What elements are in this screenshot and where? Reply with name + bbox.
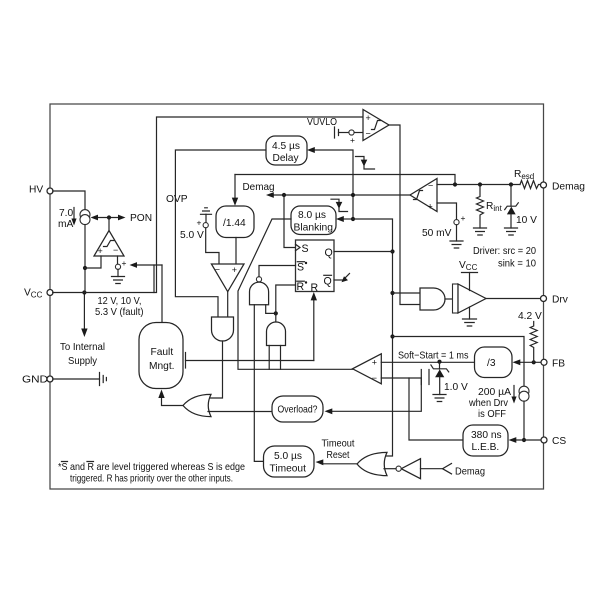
svg-text:−: − (215, 264, 220, 274)
wire FB pin into /3 (519, 361, 542, 363)
wire GND pin to chassis ground (53, 378, 100, 380)
svg-text:+: + (197, 218, 202, 228)
svg-text:mA: mA (58, 219, 73, 230)
current source I2 200uA (519, 386, 529, 396)
vcc tick (462, 272, 478, 274)
pin Drv circle (541, 296, 547, 302)
node Q to 200uA switch line (390, 334, 394, 338)
wire riser fault level from Fault Mngt (161, 265, 163, 323)
block Overload? (272, 396, 323, 422)
IC boundary frame (50, 104, 544, 489)
node Q to blanking (390, 249, 394, 253)
op-amp U7 PWM comparator (points left) (353, 354, 382, 384)
zener D2 1.0V (439, 362, 441, 369)
node PON junction (107, 215, 111, 219)
SECTION: driver (393, 260, 569, 326)
svg-text:+: + (232, 265, 237, 275)
wire AND to buffer (445, 298, 453, 300)
wire PON double arrow (95, 217, 121, 219)
OR gate G6 timeout reset (357, 452, 387, 475)
pin GND circle (47, 376, 53, 382)
svg-text:Demag: Demag (552, 182, 585, 193)
svg-text:GND: GND (22, 375, 48, 386)
svg-text:Drv: Drv (552, 295, 569, 306)
wire buffer to ground (469, 307, 471, 319)
voltage reference V1 circle (115, 264, 120, 269)
svg-text:Q: Q (324, 276, 332, 288)
svg-text:50 mV: 50 mV (422, 228, 452, 239)
svg-text:To Internal: To Internal (60, 342, 105, 353)
wire fault level select arrow (135, 264, 162, 266)
wire Q net vertical (353, 219, 393, 456)
svg-text:+: + (428, 202, 433, 212)
svg-text:OVP: OVP (166, 194, 188, 205)
svg-text:4.5 µs: 4.5 µs (272, 141, 300, 152)
wire VUVLO output to driver AND (389, 125, 420, 305)
block 380ns LEB (463, 425, 508, 456)
ground driver (463, 319, 477, 326)
svg-text:R: R (297, 281, 305, 293)
svg-text:L.E.B.: L.E.B. (472, 442, 500, 453)
svg-text:Fault: Fault (151, 347, 174, 358)
svg-text:Blanking: Blanking (294, 223, 334, 234)
svg-text:R: R (311, 282, 319, 294)
node soft-start (437, 360, 441, 364)
wire AND G1 output to fault OR (208, 341, 222, 398)
wire PWM plus input / FB divider line (381, 361, 474, 363)
svg-text:HV: HV (29, 185, 43, 196)
wire stub to Vcc line (153, 265, 155, 293)
voltage reference 5.0V circle (203, 223, 208, 228)
wire NAND input from timeout (254, 305, 263, 462)
wire y175 demag sense line (235, 175, 455, 185)
AND gate G1 (points down) (212, 317, 234, 341)
svg-text:−: − (428, 181, 433, 191)
SECTION: hv startup (53, 191, 162, 323)
svg-text:Overload?: Overload? (278, 405, 318, 416)
svg-text:Driver: src = 20: Driver: src = 20 (473, 246, 536, 257)
pin HV circle (47, 188, 53, 194)
svg-text:*S and R are level triggered w: *S and R are level triggered whereas S i… (58, 462, 245, 473)
svg-text:−: − (372, 373, 377, 383)
node FB resistor (532, 360, 536, 364)
wire AND G3 output to R-bar input (276, 285, 296, 322)
wire arrow to internal supply (83, 293, 85, 330)
svg-text:Reset: Reset (327, 450, 350, 461)
svg-text:CS: CS (552, 436, 566, 447)
wire VCC pin to VUVLO riser (53, 117, 363, 293)
wire OR bottom input from Overload (208, 411, 272, 413)
hysteresis glyph (414, 191, 423, 200)
wire comparator plus input (85, 256, 101, 268)
wire Q-bar output with switch glyph (334, 279, 343, 281)
svg-text:Soft−Start = 1 ms: Soft−Start = 1 ms (398, 351, 469, 362)
block Fault Mngt (139, 323, 183, 389)
wire demag comparator output (272, 194, 411, 196)
wire NAND input from AND G3 (266, 305, 276, 314)
wire current source down to Vcc (84, 225, 86, 293)
svg-text:12 V, 10 V,: 12 V, 10 V, (98, 296, 142, 307)
wire inverter output to OR (384, 468, 396, 470)
NAND gate G2 (points up, bubble top) (250, 282, 269, 305)
svg-text:+: + (461, 213, 466, 223)
capacitor soft-start plates (420, 370, 422, 385)
wire blanking left to diagonal (238, 219, 353, 369)
pin FB circle (541, 359, 547, 365)
voltage reference circle (349, 130, 354, 135)
pin Demag circle (541, 182, 547, 188)
SECTION: vuvlo (307, 110, 420, 305)
svg-text:Timeout: Timeout (322, 439, 355, 450)
svg-text:5.0 µs: 5.0 µs (274, 451, 302, 462)
wire Q output (334, 251, 393, 253)
block /1.44 (216, 206, 254, 238)
block 8.0us Blanking (291, 206, 336, 235)
ground zener (505, 228, 518, 235)
svg-text:+: + (372, 357, 377, 367)
ground Rint (474, 228, 487, 235)
node R-bar net (274, 311, 278, 315)
svg-text:triggered. R has priority over: triggered. R has priority over the other… (70, 474, 233, 485)
inverter G7 (401, 459, 420, 479)
wire LEB riser to PWM minus (409, 378, 463, 440)
svg-text:FB: FB (552, 359, 565, 370)
op-amp U1 PON comparator (points up) (94, 231, 124, 257)
open arrow demag in (443, 464, 452, 474)
svg-text:+: + (98, 246, 103, 256)
wire 200uA to CS line (523, 401, 525, 440)
SECTION: pwm softstart (325, 311, 567, 456)
wire latch R input arrow from fault line (313, 298, 315, 361)
pin VCC circle (47, 290, 53, 296)
zener D1 10V (510, 185, 512, 207)
arrow current direction (73, 208, 75, 221)
arrow 200uA direction (513, 386, 515, 399)
wire demag minus input line (437, 184, 520, 186)
node demag sense (453, 182, 457, 186)
wire delay output into AND gate (175, 150, 266, 317)
node junction at comparator plus tap (83, 266, 87, 270)
wire Q to driver AND top input (393, 292, 421, 294)
ground (PON reference) (112, 277, 125, 284)
latch U4 SR box (296, 240, 335, 292)
wire driver output to Drv pin (486, 298, 541, 300)
svg-text:1.0 V: 1.0 V (444, 382, 468, 393)
node Q to driver AND (390, 291, 394, 295)
OR gate G4 fault (183, 394, 211, 416)
node demag to S riser (282, 193, 286, 197)
wire CS pin into LEB (515, 439, 542, 441)
wire /1.44 to OVP comparator plus (235, 238, 237, 265)
hysteresis glyph (372, 121, 381, 130)
wire into Blanking box (342, 218, 353, 220)
svg-text:Supply: Supply (68, 356, 98, 367)
svg-text:VUVLO: VUVLO (307, 117, 337, 128)
block /3 (475, 347, 513, 378)
svg-text:+: + (366, 113, 371, 123)
wire demag line down into /1.44 (234, 175, 236, 201)
svg-text:/3: /3 (487, 358, 496, 369)
resistor R 4.2V pull-up (530, 322, 537, 363)
wire bars to reference circle (339, 132, 349, 134)
wire timeout reset arrow (322, 463, 358, 465)
AND gate G3 (points up) (267, 322, 286, 346)
svg-text:−: − (366, 129, 371, 139)
svg-text:5.3 V (fault): 5.3 V (fault) (95, 307, 144, 318)
svg-text:/1.44: /1.44 (223, 218, 246, 229)
block 4.5us Delay (266, 136, 307, 165)
latch S edge mark (296, 244, 301, 250)
resistor Resd (520, 181, 541, 189)
hysteresis glyph (104, 241, 115, 247)
wire NAND output to S-bar input (259, 266, 296, 277)
op-amp U5 demag comparator (points left) (410, 179, 437, 212)
wire ground to 5.0V source (205, 214, 207, 222)
svg-text:10 V: 10 V (516, 215, 537, 226)
SECTION: latch logic (139, 136, 455, 461)
SECTION: ovp (166, 150, 266, 398)
junction Vcc / supply (82, 290, 86, 294)
wire demag to latch S input (284, 195, 296, 248)
svg-text:−: − (113, 245, 118, 255)
chassis ground symbol (100, 373, 107, 386)
block 5.0us Timeout (264, 446, 315, 477)
node Q feedback at blanking (351, 217, 355, 221)
wire demag signal into inverter (421, 468, 443, 470)
svg-text:5.0 V: 5.0 V (180, 230, 204, 241)
wire PWM minus input (331, 378, 421, 411)
svg-text:Demag: Demag (243, 182, 275, 193)
wire 5.0V to OVP comparator minus (206, 228, 219, 264)
svg-text:Delay: Delay (273, 153, 300, 164)
op-amp U2 VUVLO comparator (363, 110, 389, 141)
wire Q to 200uA enable (393, 337, 525, 387)
wire 50mV to ground (456, 225, 458, 241)
svg-text:8.0 µs: 8.0 µs (298, 210, 326, 221)
AND gate G5 driver (420, 288, 445, 310)
svg-text:Mngt.: Mngt. (149, 361, 174, 372)
svg-text:380 ns: 380 ns (471, 430, 502, 441)
node zener top (509, 182, 513, 186)
pin CS circle (541, 437, 547, 443)
wire reference to ground (117, 269, 119, 276)
svg-text:is OFF: is OFF (478, 409, 506, 420)
ground (5.0V reference, pointing up) (201, 208, 212, 215)
svg-text:when Drv: when Drv (468, 398, 509, 409)
current source I1 7.0mA (two circles) (80, 210, 90, 220)
SECTION: bottom (58, 396, 485, 485)
svg-text:200 µA: 200 µA (478, 387, 511, 398)
falling edge glyph near VUVLO (356, 157, 375, 170)
ground 50mV (450, 241, 463, 248)
ground bars (VUVLO reference) (335, 127, 339, 138)
buffer U6 output driver (453, 284, 459, 313)
svg-text:7.0: 7.0 (59, 208, 73, 219)
wire G3 input left (268, 346, 270, 370)
svg-text:+: + (122, 258, 127, 268)
svg-text:Q: Q (325, 247, 333, 259)
node CS 200uA (522, 438, 526, 442)
wire vcc to buffer (469, 273, 471, 291)
node demag delay riser (351, 193, 355, 197)
SECTION: left pins (22, 117, 363, 386)
wire G3 input right (280, 346, 282, 370)
falling edge glyph near blanking (331, 199, 348, 211)
svg-text:Demag: Demag (455, 467, 485, 478)
op-amp U3 OVP comparator (points down) (211, 264, 244, 292)
wire HV pin to current source (53, 191, 85, 210)
wire fault line to latch R (186, 360, 314, 362)
voltage reference 50mV circle (454, 220, 459, 225)
wire into Delay box (313, 150, 353, 219)
svg-text:4.2 V: 4.2 V (518, 311, 542, 322)
fault output tick mark (185, 353, 187, 369)
node Rint top (478, 182, 482, 186)
SECTION: demag right (410, 169, 585, 270)
resistor Rint (477, 185, 484, 229)
svg-text:+: + (350, 135, 355, 145)
wire comparator minus to reference (117, 256, 119, 264)
wire OVP output down to AND gate (227, 292, 229, 317)
wire OR output up into Fault Mngt (162, 396, 184, 406)
svg-text:sink = 10: sink = 10 (498, 259, 536, 270)
svg-text:Timeout: Timeout (270, 464, 307, 475)
svg-text:PON: PON (130, 213, 152, 224)
wire demag plus input (437, 203, 457, 220)
svg-text:S: S (302, 243, 309, 255)
wire reference to minus input (354, 132, 363, 134)
wire PON to comparator output (108, 218, 110, 231)
svg-text:S: S (297, 262, 304, 274)
ground soft-start zener (433, 395, 446, 402)
